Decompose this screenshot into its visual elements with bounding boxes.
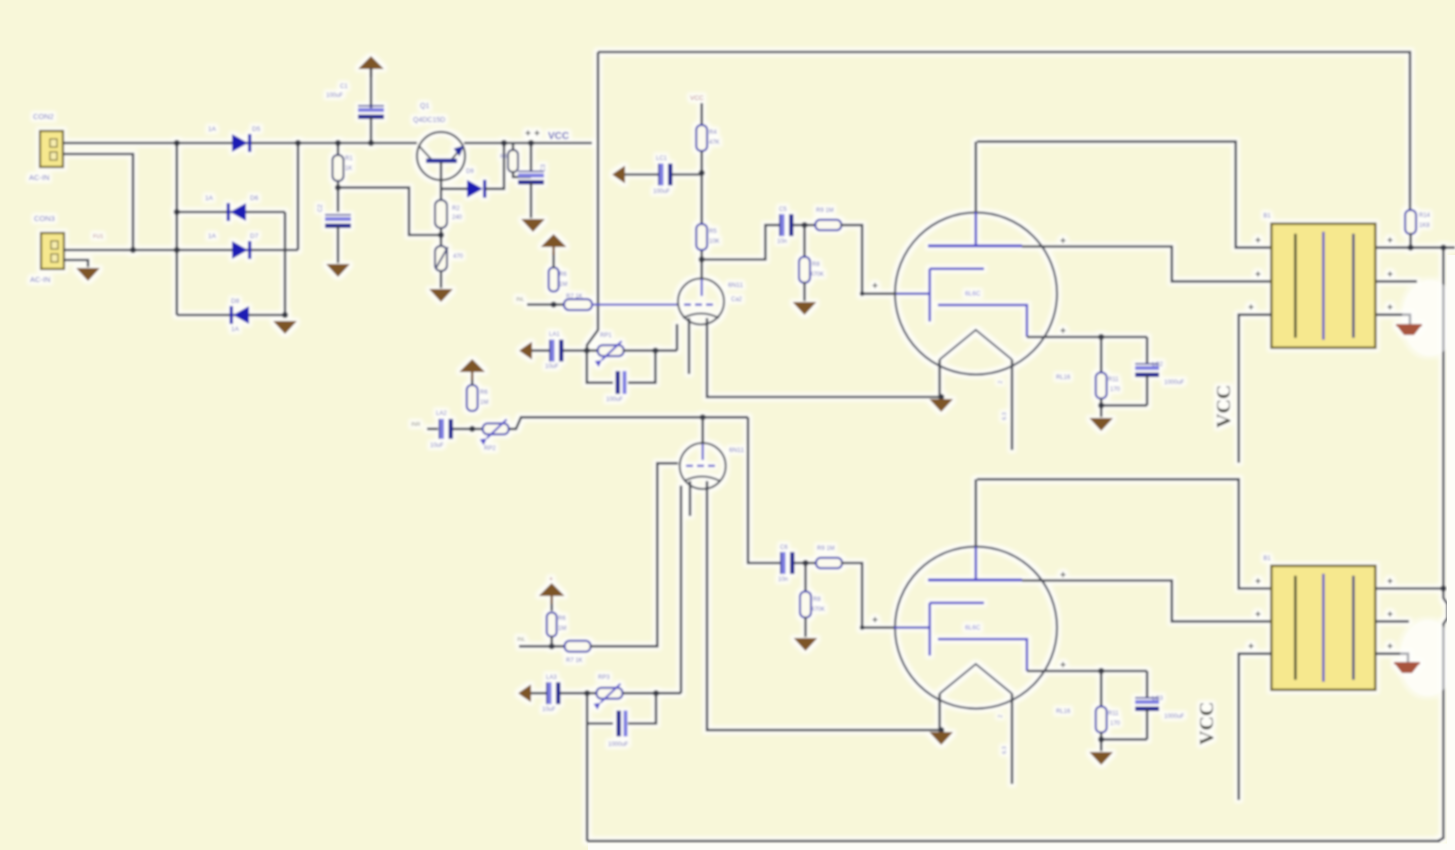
svg-text:LA1: LA1: [549, 332, 560, 338]
svg-text:C2: C2: [318, 204, 324, 212]
svg-text:INL: INL: [517, 637, 526, 643]
svg-text:B1: B1: [1263, 214, 1271, 220]
svg-text:RL16: RL16: [1056, 375, 1071, 381]
svg-text:10uF: 10uF: [430, 443, 444, 449]
svg-text:VCC: VCC: [1196, 702, 1218, 745]
svg-text:R6: R6: [559, 272, 567, 278]
svg-text:R2: R2: [452, 206, 460, 212]
svg-text:Ca2: Ca2: [731, 297, 743, 303]
svg-text:D8: D8: [231, 298, 240, 305]
svg-text:RL16: RL16: [1056, 709, 1071, 715]
svg-text:1K: 1K: [345, 166, 352, 172]
svg-text:6.3: 6.3: [1002, 746, 1008, 754]
svg-text:1A: 1A: [205, 195, 214, 202]
svg-text:100uF: 100uF: [653, 189, 670, 195]
svg-text:1A: 1A: [231, 326, 240, 333]
svg-text:C6: C6: [780, 545, 788, 551]
svg-text:R8: R8: [812, 262, 820, 268]
svg-text:D9: D9: [466, 169, 474, 175]
svg-text:R4: R4: [709, 130, 717, 136]
svg-text:R9 1M: R9 1M: [817, 546, 835, 552]
svg-text:R11: R11: [1108, 377, 1119, 383]
svg-text:470K: 470K: [811, 607, 825, 613]
svg-text:R1: R1: [345, 156, 353, 162]
svg-text:1K8: 1K8: [1419, 223, 1430, 229]
svg-text:1000uF: 1000uF: [1164, 380, 1185, 386]
svg-text:R8: R8: [813, 597, 821, 603]
svg-text:10n: 10n: [777, 239, 787, 245]
svg-text:R7 1K: R7 1K: [566, 294, 583, 300]
svg-text:170: 170: [1110, 721, 1121, 727]
svg-text:INL: INL: [516, 297, 525, 303]
svg-text:RP3: RP3: [598, 675, 610, 681]
svg-text:LC1: LC1: [656, 156, 668, 162]
svg-text:LC3: LC3: [1152, 696, 1164, 702]
svg-text:1A: 1A: [208, 233, 217, 240]
svg-text:Q4DC15D: Q4DC15D: [413, 117, 445, 124]
svg-text:170: 170: [1110, 387, 1121, 393]
svg-text:100uF: 100uF: [606, 397, 623, 403]
svg-text:VCC: VCC: [690, 95, 704, 102]
svg-text:VCC: VCC: [548, 131, 569, 142]
svg-text:R11: R11: [1108, 711, 1119, 717]
svg-text:1M: 1M: [559, 282, 567, 288]
svg-text:C3: C3: [541, 164, 547, 172]
svg-text:C5: C5: [779, 207, 787, 213]
svg-text:D7: D7: [250, 233, 259, 240]
svg-text:RP2: RP2: [484, 446, 496, 452]
svg-text:AC-IN: AC-IN: [29, 173, 49, 182]
svg-text:1M: 1M: [480, 400, 488, 406]
svg-text:R7 1K: R7 1K: [566, 658, 583, 664]
svg-text:VCC: VCC: [1213, 385, 1235, 428]
svg-text:1000uF: 1000uF: [608, 742, 629, 748]
svg-text:AC-IN: AC-IN: [30, 275, 50, 284]
svg-text:10uF: 10uF: [542, 707, 556, 713]
svg-text:240: 240: [452, 215, 463, 221]
svg-text:CON3: CON3: [34, 214, 55, 223]
svg-text:2: 2: [998, 715, 1004, 718]
svg-text:CON2: CON2: [33, 112, 54, 121]
svg-text:D5: D5: [252, 126, 261, 133]
svg-text:1M: 1M: [558, 626, 566, 632]
svg-text:10K: 10K: [709, 239, 720, 245]
svg-text:470K: 470K: [810, 272, 824, 278]
svg-text:10n: 10n: [778, 577, 788, 583]
svg-text:R3: R3: [500, 154, 507, 160]
svg-text:INR: INR: [411, 422, 421, 428]
svg-text:470: 470: [453, 254, 464, 260]
svg-text:6L6C: 6L6C: [965, 291, 981, 298]
svg-text:Q1: Q1: [420, 103, 429, 110]
svg-text:2: 2: [998, 381, 1004, 384]
svg-text:R5: R5: [709, 229, 717, 235]
svg-text:+: +: [549, 576, 553, 583]
svg-text:LC2: LC2: [1152, 362, 1164, 368]
svg-text:RP1: RP1: [600, 333, 612, 339]
svg-text:1000uF: 1000uF: [1164, 714, 1185, 720]
svg-text:6N11: 6N11: [728, 282, 743, 289]
svg-text:LA3: LA3: [546, 675, 557, 681]
svg-text:100uF: 100uF: [326, 93, 343, 99]
svg-text:R9 1M: R9 1M: [816, 208, 834, 214]
svg-text:D6: D6: [250, 195, 259, 202]
svg-text:C1: C1: [340, 84, 348, 90]
svg-text:1A: 1A: [208, 126, 217, 133]
svg-text:6L6C: 6L6C: [965, 625, 981, 632]
svg-text:47K: 47K: [709, 140, 720, 146]
svg-text:6.3: 6.3: [1002, 412, 1008, 420]
svg-text:6N11: 6N11: [729, 447, 744, 454]
svg-text:R6: R6: [558, 616, 566, 622]
svg-text:R14: R14: [1419, 213, 1431, 219]
svg-text:10uF: 10uF: [545, 364, 559, 370]
svg-text:FU1: FU1: [93, 234, 103, 240]
svg-text:R6: R6: [480, 390, 488, 396]
svg-text:LA2: LA2: [436, 411, 447, 417]
svg-text:B1: B1: [1263, 556, 1271, 562]
